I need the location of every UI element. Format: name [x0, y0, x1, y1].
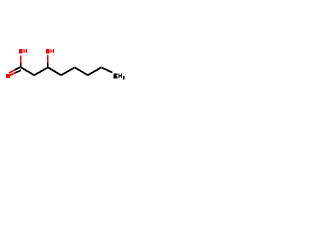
wire / bond C3-C4 [48, 67, 61, 75]
node OH hydroxyl label on C3 (O glyph) [46, 49, 50, 54]
node OH hydroxyl label on C1 (O glyph) [19, 49, 23, 54]
wire / double bond C1=O inner line black half [15, 70, 21, 73]
wire / bond C1-C2 [21, 67, 34, 75]
node CH3 terminal methyl label (3 subscript glyph) [123, 76, 125, 79]
wire / bond C3-OH red half [47, 55, 49, 62]
wire / double bond C1=O inner line red half [10, 73, 16, 76]
node OH hydroxyl label on C3 (H glyph) [51, 49, 54, 53]
wire / bond C1-OH red half [20, 56, 22, 63]
wire / double bond C1=O outer line red half [9, 70, 15, 73]
background [0, 0, 130, 130]
wire / bond C2-C3 [34, 67, 48, 75]
node CH3 terminal methyl label (C glyph) [114, 74, 118, 79]
wire / bond C7-C8 [101, 67, 112, 72]
wire / bond C3-OH black half [47, 63, 49, 68]
wire / bond C6-C7 [88, 67, 102, 75]
wire / double bond C1=O outer line black half [15, 67, 21, 70]
wire / bond C1-OH black half [20, 63, 22, 68]
node CH3 terminal methyl label (H glyph) [119, 74, 122, 79]
node OH hydroxyl label on C1 (H glyph) [24, 49, 27, 53]
wire / bond C4-C5 [61, 67, 75, 75]
node O carbonyl oxygen label [6, 74, 10, 78]
wire / bond C5-C6 [75, 67, 88, 75]
